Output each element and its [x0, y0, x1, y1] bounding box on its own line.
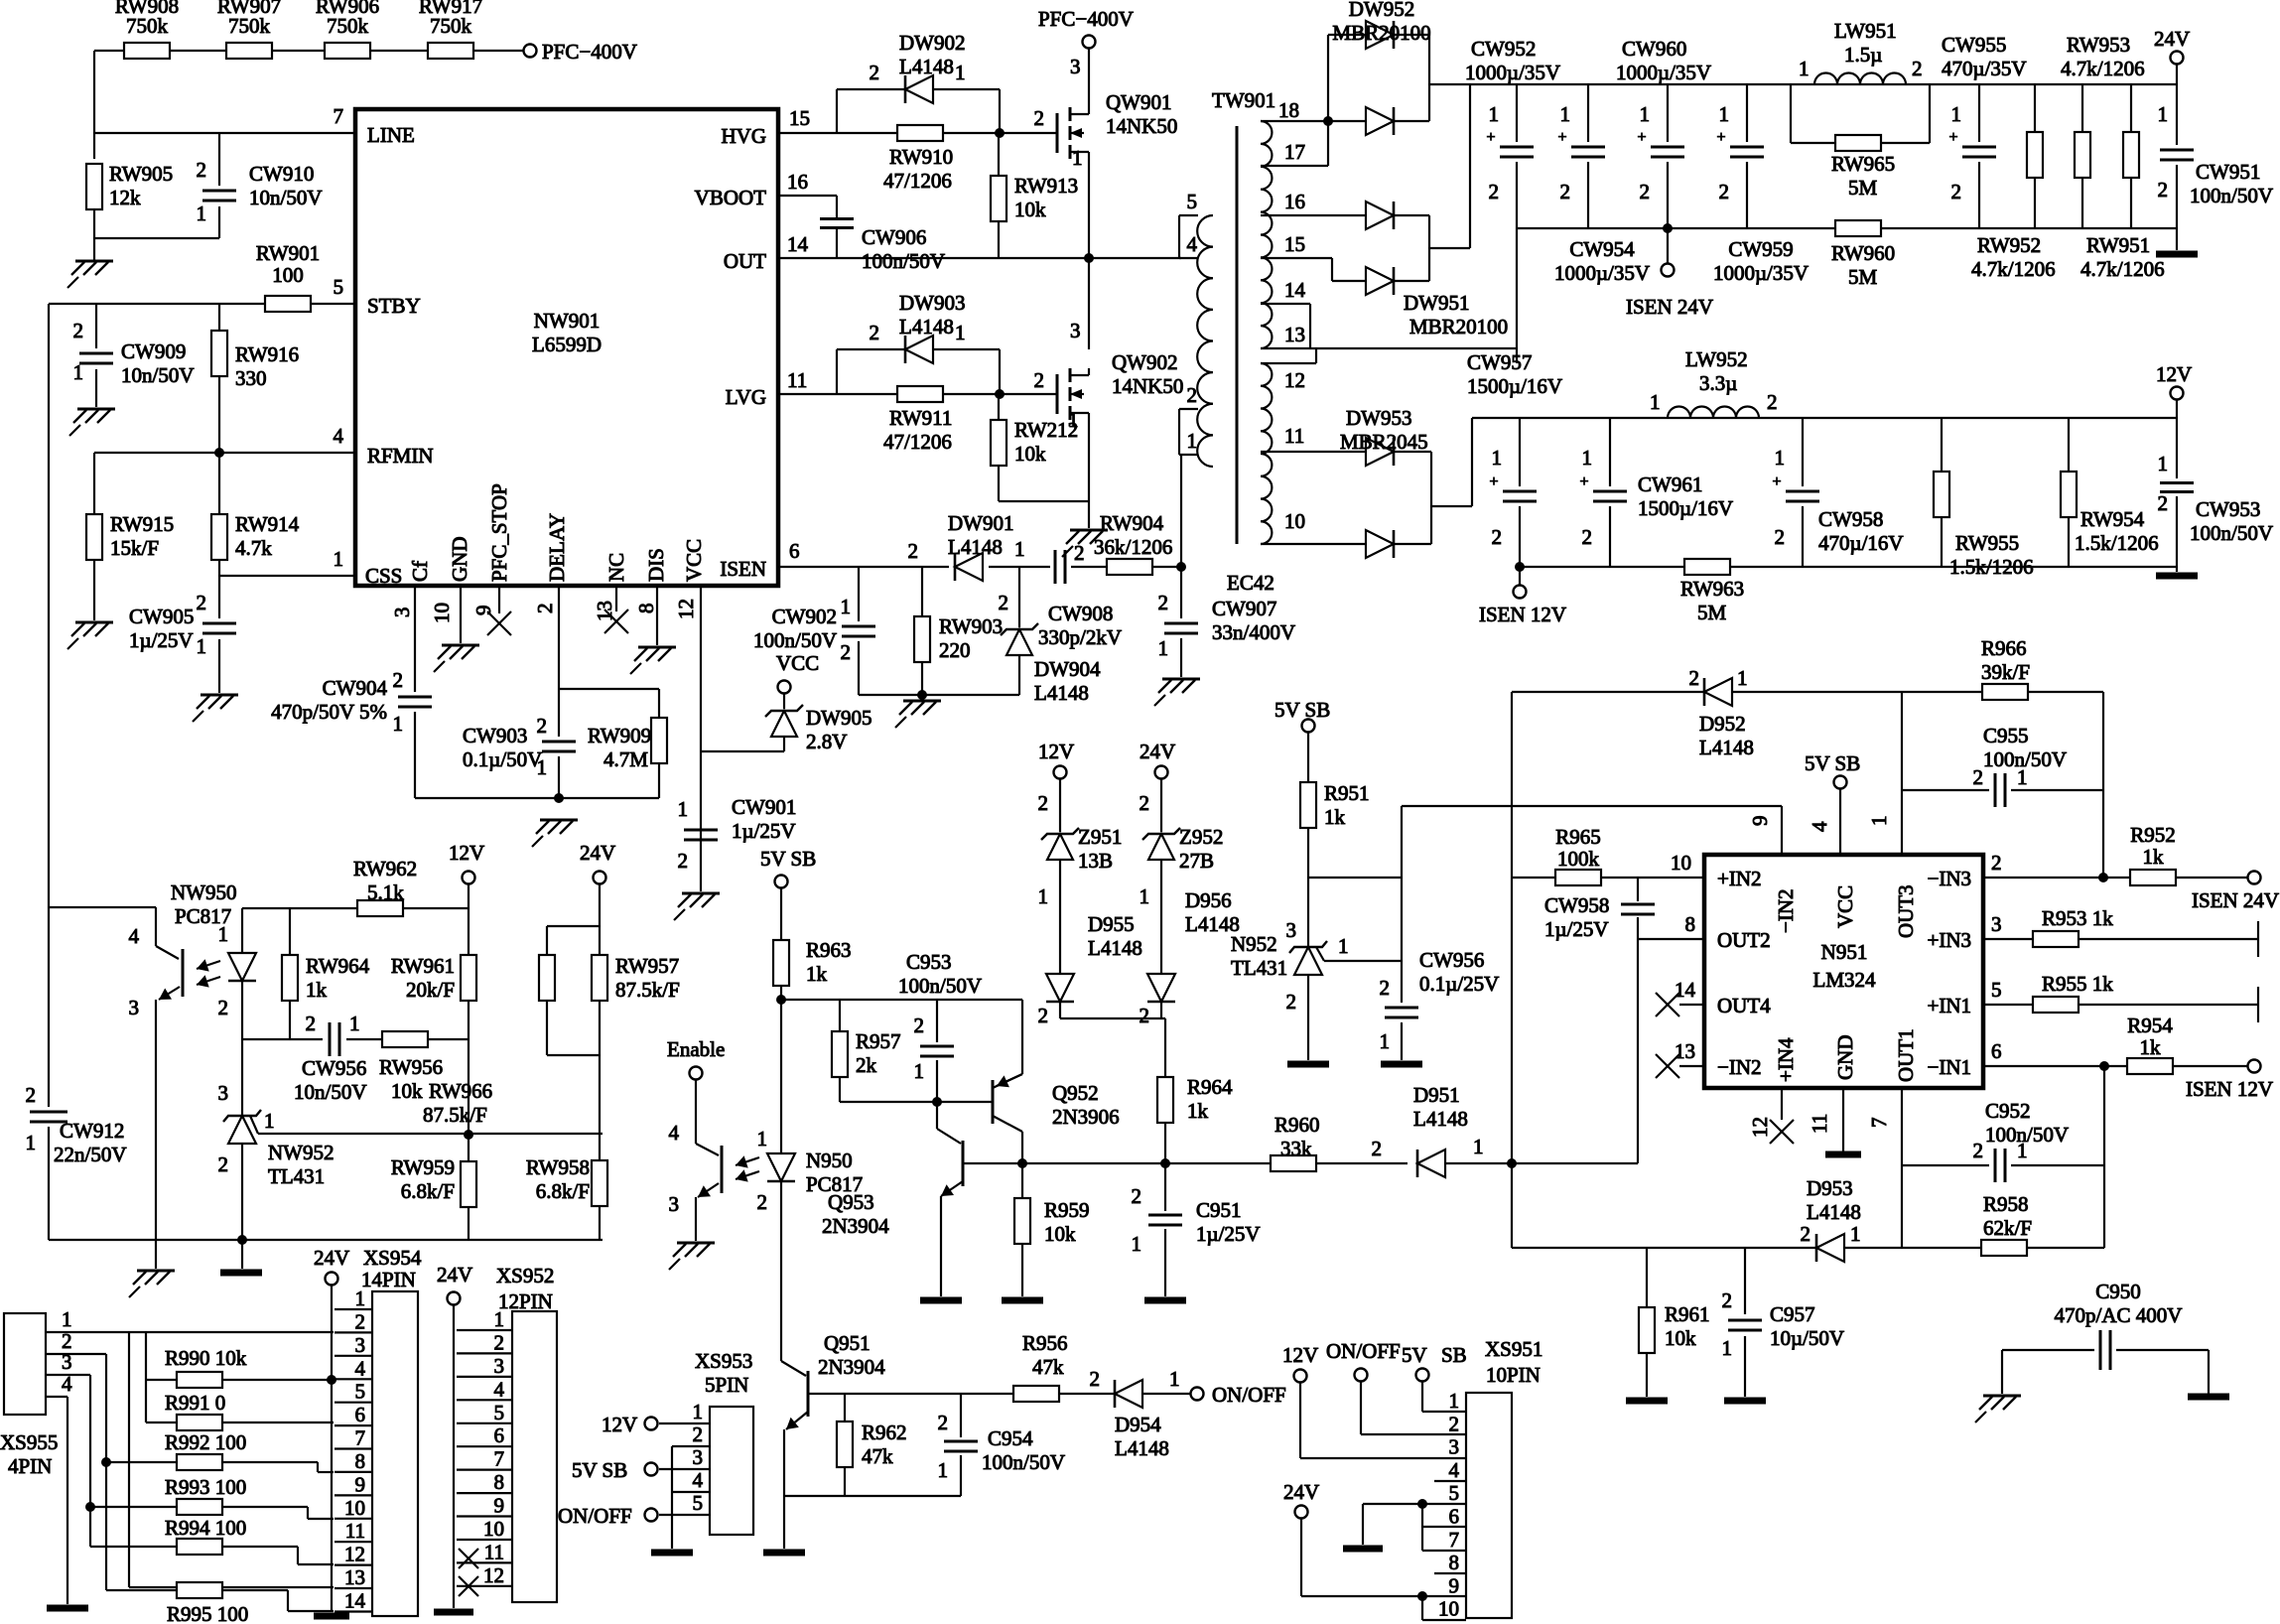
label C953	[898, 950, 982, 998]
svg-text:LW951: LW951	[1834, 19, 1897, 43]
diode DW953 A	[1366, 438, 1394, 466]
wire D951 to OUT2	[1637, 939, 1639, 1163]
svg-text:24V: 24V	[1140, 740, 1175, 763]
wire lm324 gnd	[1842, 1088, 1844, 1151]
wire XS953 pin4	[672, 1491, 710, 1493]
label CW957	[1467, 350, 1562, 398]
label RW953	[2061, 33, 2145, 80]
label Q952	[1052, 1081, 1120, 1129]
wire R995 wires	[106, 1590, 334, 1611]
transistor Q951 emitter	[786, 1412, 808, 1429]
wire CW910 stub	[218, 133, 220, 238]
svg-text:RW962: RW962	[353, 857, 417, 880]
svg-text:+: +	[1557, 129, 1566, 146]
label QW902	[1112, 350, 1183, 398]
wire CW954 stubs	[1587, 84, 1589, 228]
terminal 12V xs951	[1294, 1370, 1307, 1383]
resistor R994	[177, 1539, 222, 1555]
svg-text:1: 1	[1380, 1029, 1391, 1053]
svg-text:EC42: EC42	[1227, 571, 1274, 595]
svg-text:2: 2	[841, 640, 852, 664]
svg-text:12V: 12V	[602, 1413, 637, 1436]
svg-text:CW956: CW956	[1419, 948, 1484, 972]
capacitor CW910	[202, 191, 236, 201]
svg-text:−IN1: −IN1	[1927, 1055, 1971, 1079]
svg-text:L4148: L4148	[1034, 681, 1089, 705]
wire RW955 stubs	[1941, 418, 1943, 567]
svg-text:1: 1	[938, 1458, 949, 1482]
svg-text:XS951: XS951	[1485, 1337, 1542, 1361]
label CW958 1u	[1544, 893, 1609, 941]
svg-text:4: 4	[62, 1372, 72, 1396]
optocoupler NW950 transistor bar	[182, 949, 185, 997]
wire DELAY bracket top	[559, 689, 659, 717]
svg-text:LM324: LM324	[1813, 968, 1877, 992]
label CW905	[129, 605, 194, 652]
svg-text:7: 7	[355, 1426, 366, 1450]
resistor R959	[1014, 1198, 1030, 1244]
svg-text:2: 2	[1372, 1137, 1383, 1160]
label DW953	[1340, 406, 1428, 454]
svg-text:RW961: RW961	[391, 954, 455, 978]
svg-text:D953: D953	[1807, 1176, 1853, 1200]
transistor Q953 emitter	[941, 1181, 963, 1196]
capacitor CW959 1000µ/35V	[1716, 129, 1764, 157]
label R958 62k	[1983, 1192, 2032, 1240]
resistor R957	[832, 1031, 848, 1077]
svg-text:L4148: L4148	[1807, 1200, 1861, 1224]
svg-text:+IN1: +IN1	[1927, 994, 1971, 1017]
label DW904	[1034, 657, 1101, 705]
svg-text:5: 5	[355, 1380, 366, 1404]
svg-text:4.7k/1206: 4.7k/1206	[1971, 257, 2056, 281]
no-connect xs952 pin12	[459, 1576, 478, 1596]
label RW955	[1949, 531, 2034, 579]
wire Q951 collector	[781, 1361, 806, 1376]
svg-text:CW912: CW912	[60, 1119, 124, 1143]
wire left rail	[48, 304, 50, 1240]
wire CW906 bottom	[836, 228, 838, 258]
wire RW966 bracket	[547, 926, 600, 1055]
svg-text:MBR20100: MBR20100	[1409, 315, 1508, 338]
resistor R963	[773, 940, 789, 986]
wire v107	[105, 1354, 107, 1590]
wire N950 emitter	[695, 1197, 697, 1241]
capacitor CW902	[842, 626, 875, 636]
svg-text:1: 1	[1650, 390, 1661, 414]
svg-text:100n/50V: 100n/50V	[898, 974, 982, 998]
wire CW909 stub	[95, 304, 97, 407]
terminal 5VSB lm324	[1834, 776, 1847, 789]
wire -IN3 net	[1983, 877, 2248, 879]
label DW901	[948, 511, 1014, 559]
svg-text:XS954: XS954	[363, 1246, 422, 1270]
label XS951	[1485, 1337, 1542, 1387]
svg-text:5V SB: 5V SB	[760, 847, 816, 871]
label LW951	[1834, 19, 1897, 67]
wire XS955 pin4	[46, 1396, 67, 1398]
svg-text:4: 4	[334, 424, 344, 448]
svg-text:2: 2	[73, 319, 84, 342]
svg-text:10: 10	[1438, 1597, 1459, 1621]
wire CW956b stub	[1401, 878, 1403, 1060]
wire CW958 stub	[1637, 878, 1639, 939]
svg-text:R957: R957	[856, 1029, 901, 1053]
svg-text:1: 1	[841, 595, 852, 618]
wire Q951 base net	[808, 1393, 1190, 1395]
wire Q953 emitter	[940, 1196, 942, 1296]
svg-text:47k: 47k	[862, 1444, 893, 1468]
resistor RW966	[539, 955, 555, 1001]
svg-text:OUT: OUT	[724, 249, 766, 273]
svg-text:5: 5	[334, 275, 344, 299]
ground CW909	[69, 409, 115, 436]
optocoupler N950 emitter	[698, 1183, 719, 1197]
label RW901	[256, 241, 320, 287]
transformer primary winding	[1197, 215, 1213, 467]
resistor R962	[837, 1421, 853, 1467]
label Z951	[1078, 825, 1122, 873]
wire pin18	[1261, 120, 1366, 122]
diode D956	[1147, 974, 1175, 1002]
junction Q952 base	[932, 1097, 942, 1107]
svg-text:1: 1	[197, 634, 207, 658]
svg-text:3: 3	[218, 1081, 229, 1105]
svg-text:1000µ/35V: 1000µ/35V	[1713, 261, 1809, 285]
svg-text:OUT4: OUT4	[1717, 994, 1771, 1017]
label RW952	[1971, 233, 2056, 281]
svg-text:2: 2	[914, 1014, 925, 1037]
svg-text:24V: 24V	[1283, 1480, 1319, 1504]
wire R994 wires	[90, 1547, 334, 1564]
svg-text:CW904: CW904	[323, 676, 388, 700]
svg-text:5: 5	[1187, 190, 1198, 213]
svg-text:8: 8	[355, 1449, 366, 1473]
svg-text:14: 14	[1675, 978, 1696, 1002]
label CW904	[271, 676, 387, 724]
svg-text:3: 3	[1070, 55, 1081, 78]
label R952	[2130, 823, 2176, 869]
wire CSS net	[219, 575, 355, 577]
capacitor CW952 1000µ/35V	[1486, 129, 1534, 157]
svg-text:RW904: RW904	[1100, 511, 1164, 535]
svg-text:1.5µ: 1.5µ	[1844, 43, 1882, 67]
wire pin14-13 bracket	[1261, 304, 1517, 348]
svg-text:15k/F: 15k/F	[110, 536, 159, 560]
svg-text:1: 1	[1132, 1232, 1142, 1256]
no-connect pin13	[1656, 1054, 1679, 1078]
wire pin13 stub	[1679, 1065, 1704, 1067]
wire RW952 stubs	[2081, 84, 2083, 228]
wire pin9 net	[1402, 806, 1782, 855]
svg-text:100n/50V: 100n/50V	[2190, 184, 2273, 207]
wire DIS stub	[656, 586, 658, 645]
wire C952 net	[1902, 1164, 2104, 1166]
svg-text:1500µ/16V: 1500µ/16V	[1638, 496, 1733, 520]
svg-text:47k: 47k	[1032, 1355, 1064, 1379]
optocoupler NW950 emitter	[159, 987, 180, 1000]
label CW953	[2190, 497, 2273, 545]
wire CW959 stubs	[1746, 84, 1748, 228]
svg-text:C953: C953	[906, 950, 952, 974]
wire CW953 stubs	[2176, 418, 2178, 572]
svg-text:3: 3	[1449, 1435, 1460, 1459]
svg-text:N950: N950	[806, 1149, 853, 1172]
svg-text:62k/F: 62k/F	[1983, 1216, 2032, 1240]
svg-text:CW909: CW909	[121, 339, 186, 363]
svg-text:CW902: CW902	[772, 605, 837, 628]
svg-text:9: 9	[1449, 1573, 1460, 1597]
junction xs951 pin9	[1417, 1591, 1427, 1601]
svg-text:R963: R963	[806, 938, 852, 962]
svg-text:100n/50V: 100n/50V	[862, 249, 945, 273]
label XS955	[0, 1430, 58, 1478]
svg-text:3: 3	[494, 1354, 505, 1378]
label D955	[1088, 912, 1142, 960]
wire Q952 collector	[993, 1116, 1022, 1163]
svg-text:4: 4	[1449, 1458, 1460, 1482]
svg-text:C955: C955	[1983, 724, 2029, 747]
svg-text:1µ/25V: 1µ/25V	[129, 628, 194, 652]
svg-text:+: +	[1486, 129, 1495, 146]
wire XS953 gnd bracket	[671, 1446, 673, 1549]
wire RW916 stubs	[218, 304, 220, 453]
svg-text:CW957: CW957	[1467, 350, 1532, 374]
svg-text:R992 100: R992 100	[165, 1430, 246, 1454]
label RW960	[1831, 241, 1895, 289]
svg-text:4.7k/1206: 4.7k/1206	[2080, 257, 2165, 281]
svg-text:+: +	[1637, 129, 1646, 146]
ground QW902 source	[1062, 530, 1108, 557]
ground CW907	[1154, 679, 1200, 706]
ground N950 emitter	[669, 1243, 715, 1270]
svg-text:2: 2	[1492, 525, 1503, 549]
svg-text:10n/50V: 10n/50V	[249, 186, 323, 209]
svg-text:R995 100: R995 100	[167, 1602, 248, 1624]
svg-text:7: 7	[1449, 1528, 1460, 1552]
svg-text:1: 1	[1640, 102, 1651, 126]
diode DW903	[905, 336, 933, 363]
capacitor C953	[920, 1046, 954, 1056]
label CW955	[1942, 33, 2027, 80]
label D956	[1185, 888, 1240, 936]
label CW903	[463, 724, 542, 771]
junction HVG gate	[995, 128, 1005, 138]
svg-text:NW950: NW950	[171, 880, 237, 904]
diode DW951 B	[1366, 267, 1394, 295]
svg-text:ISEN 24V: ISEN 24V	[2192, 888, 2279, 912]
transistor Q952 emitter arrow	[997, 1074, 1022, 1087]
svg-text:1k: 1k	[2140, 1035, 2162, 1059]
label RW951	[2080, 233, 2165, 281]
svg-text:RW951: RW951	[2086, 233, 2150, 257]
junction Q952 coll	[1017, 1158, 1027, 1168]
svg-text:4: 4	[1808, 821, 1831, 832]
resistor R952	[2130, 870, 2176, 885]
svg-text:GND: GND	[1833, 1035, 1857, 1081]
connector XS955 box	[4, 1313, 46, 1415]
svg-text:2: 2	[1973, 765, 1984, 789]
svg-text:1: 1	[1719, 102, 1730, 126]
svg-text:VCC: VCC	[776, 651, 819, 675]
svg-text:9: 9	[355, 1472, 366, 1496]
svg-text:2: 2	[1286, 990, 1297, 1014]
svg-text:1k: 1k	[306, 978, 328, 1002]
inductor LW952	[1668, 407, 1759, 419]
svg-text:2: 2	[1719, 180, 1730, 203]
ground CW905	[193, 695, 238, 722]
svg-text:12: 12	[1748, 1117, 1772, 1138]
label R965	[1555, 825, 1601, 871]
svg-text:11: 11	[787, 368, 807, 392]
resistor R990	[177, 1372, 222, 1388]
junction 5VSB R963	[776, 995, 786, 1005]
svg-text:1: 1	[1560, 102, 1571, 126]
svg-text:2: 2	[2158, 491, 2169, 515]
svg-text:R962: R962	[862, 1421, 907, 1444]
wire RW903 stubs	[921, 567, 923, 695]
wire 12V fb rail	[242, 907, 469, 909]
svg-text:−IN2: −IN2	[1717, 1055, 1762, 1079]
wire pin12 stub	[1781, 1088, 1783, 1120]
ground C951	[1144, 1297, 1186, 1304]
wire C953 stubs	[936, 1000, 938, 1102]
svg-text:5PIN: 5PIN	[705, 1373, 748, 1397]
svg-text:18: 18	[1278, 98, 1299, 122]
label D952	[1699, 712, 1754, 759]
diode DW901	[955, 553, 983, 581]
wire R957 stubs	[839, 1000, 841, 1102]
wire 12V rail	[1472, 399, 2177, 418]
wire VBOOT net	[778, 196, 837, 218]
svg-text:2: 2	[26, 1083, 37, 1107]
wire 24V fb vert	[599, 883, 601, 1240]
wire GND stub	[460, 586, 462, 643]
svg-text:RFMIN: RFMIN	[367, 444, 434, 468]
label DW952	[1332, 0, 1430, 45]
svg-text:R966: R966	[1981, 636, 2027, 660]
wire NW950 LED anode	[241, 908, 243, 955]
label RW908	[115, 0, 179, 38]
wire Q951 emitter	[783, 1429, 785, 1549]
svg-text:1: 1	[1014, 537, 1025, 561]
svg-text:L4148: L4148	[948, 535, 1003, 559]
svg-text:5V SB: 5V SB	[572, 1458, 627, 1482]
svg-text:1k: 1k	[1187, 1099, 1209, 1123]
svg-text:C952: C952	[1985, 1099, 2031, 1123]
junction DELAY gnd	[554, 793, 564, 803]
wire N950 LED cathode	[780, 1179, 782, 1361]
svg-text:2: 2	[1140, 1004, 1150, 1027]
transformer secondary bottom winding	[1261, 363, 1272, 544]
resistor R961	[1639, 1307, 1655, 1353]
svg-text:LINE: LINE	[367, 123, 415, 147]
optocoupler NW950 LED	[228, 953, 256, 981]
ground xs951	[1343, 1546, 1383, 1553]
svg-text:2: 2	[2158, 178, 2169, 202]
svg-text:11: 11	[1808, 1114, 1831, 1134]
label R959	[1044, 1198, 1090, 1246]
svg-text:6.8k/F: 6.8k/F	[401, 1179, 455, 1203]
svg-text:2: 2	[1801, 1222, 1811, 1246]
terminal 24V fb	[594, 872, 606, 884]
svg-text:0.1µ/25V: 0.1µ/25V	[1419, 972, 1499, 996]
svg-text:5M: 5M	[1848, 265, 1878, 289]
wire NC stub	[615, 586, 617, 611]
resistor R964	[1157, 1077, 1173, 1123]
wire clamp bottom	[1060, 1017, 1165, 1019]
svg-text:2: 2	[355, 1309, 366, 1333]
svg-text:17: 17	[1284, 140, 1305, 164]
svg-text:D952: D952	[1699, 712, 1746, 736]
svg-text:5V SB: 5V SB	[1274, 698, 1330, 722]
svg-text:3: 3	[355, 1333, 366, 1357]
svg-text:100n/50V: 100n/50V	[1983, 747, 2067, 771]
wire R990 wires	[146, 1379, 334, 1381]
svg-text:10n/50V: 10n/50V	[294, 1080, 367, 1104]
svg-text:1: 1	[2158, 452, 2169, 475]
ground DIS pin	[630, 647, 676, 674]
resistor R960	[1271, 1155, 1316, 1171]
svg-text:15: 15	[789, 106, 810, 130]
svg-text:4.7M: 4.7M	[604, 747, 648, 771]
svg-text:+IN3: +IN3	[1927, 928, 1971, 952]
svg-text:2: 2	[393, 668, 404, 692]
shunt regulator N952 TL431	[1289, 941, 1327, 975]
svg-text:RW909: RW909	[588, 724, 651, 747]
wire Q952 emitter	[993, 1000, 1022, 1088]
svg-text:2: 2	[1767, 390, 1778, 414]
capacitor CW960 1000µ/35V	[1637, 129, 1684, 157]
svg-text:1: 1	[264, 1109, 275, 1133]
capacitor C957	[1728, 1320, 1762, 1330]
wire pin10	[1261, 543, 1366, 545]
capacitor CW958 output	[1772, 474, 1819, 501]
wire DELAY stub	[558, 586, 560, 796]
svg-text:14: 14	[787, 232, 809, 256]
wire C954 stubs	[960, 1394, 962, 1496]
wire primary bracket bottom	[1179, 409, 1198, 455]
resistor RW962	[357, 900, 403, 916]
svg-text:1: 1	[1867, 816, 1891, 827]
ground N952b	[1287, 1061, 1329, 1068]
wire RW913 stubs	[998, 133, 1000, 258]
resistor RW915	[86, 514, 102, 560]
svg-text:Q952: Q952	[1052, 1081, 1099, 1105]
junction -IN3 R966	[2098, 873, 2108, 882]
svg-text:1: 1	[349, 1012, 360, 1035]
label CW912	[54, 1119, 127, 1166]
terminal 12V fb	[463, 872, 475, 884]
svg-text:1: 1	[1737, 666, 1748, 690]
svg-text:8: 8	[634, 604, 658, 614]
svg-text:1: 1	[1140, 884, 1150, 908]
wire left rail top	[93, 51, 95, 159]
svg-text:3: 3	[62, 1350, 72, 1374]
wire primary bracket top	[1179, 215, 1198, 258]
ground R959	[1002, 1297, 1043, 1304]
svg-text:2: 2	[1090, 1367, 1101, 1391]
resistor R953	[2033, 931, 2079, 947]
wire CW904 bottom	[415, 712, 559, 798]
svg-text:1: 1	[1951, 102, 1962, 126]
wire C950 net	[2002, 1350, 2209, 1394]
svg-text:1: 1	[1799, 57, 1810, 80]
svg-text:13: 13	[1284, 323, 1305, 346]
svg-text:5: 5	[494, 1401, 505, 1424]
junction ISEN24V	[1663, 223, 1673, 233]
label C950	[2055, 1280, 2183, 1327]
